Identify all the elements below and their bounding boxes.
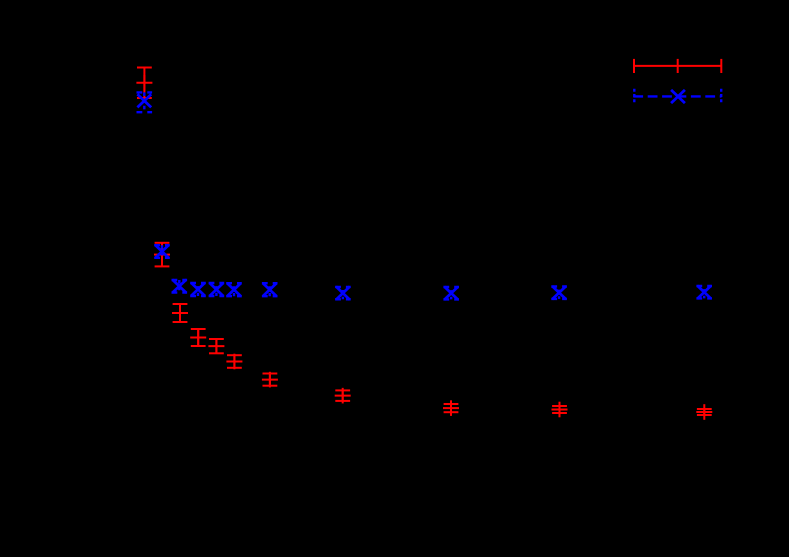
red errorbar point 3: [172, 304, 188, 322]
blue errorbar point 2: [154, 245, 170, 258]
red errorbar point 4: [190, 329, 206, 346]
blue errorbar point 7: [262, 283, 278, 296]
blue errorbar point 8: [335, 287, 351, 300]
red errorbar point 6: [226, 354, 242, 370]
blue errorbar point 6: [226, 283, 242, 296]
legend red sample: [634, 59, 721, 73]
blue errorbar point 5: [209, 283, 225, 296]
blue errorbar point 11: [696, 286, 712, 299]
blue errorbar point 1: [137, 92, 153, 112]
red errorbar point 10: [552, 402, 568, 418]
blue errorbar point 10: [551, 286, 567, 299]
red errorbar point 1: [136, 68, 152, 99]
blue errorbar point 3: [172, 280, 188, 293]
legend blue sample: [633, 89, 721, 104]
blue errorbar point 4: [190, 283, 206, 296]
red errorbar point 5: [208, 338, 224, 354]
red errorbar point 7: [262, 372, 278, 388]
red errorbar point 8: [335, 388, 351, 404]
red errorbar point 11: [696, 404, 712, 420]
red errorbar point 9: [443, 400, 459, 416]
red errorbar point 2: [154, 243, 170, 267]
blue errorbar point 9: [443, 287, 459, 300]
